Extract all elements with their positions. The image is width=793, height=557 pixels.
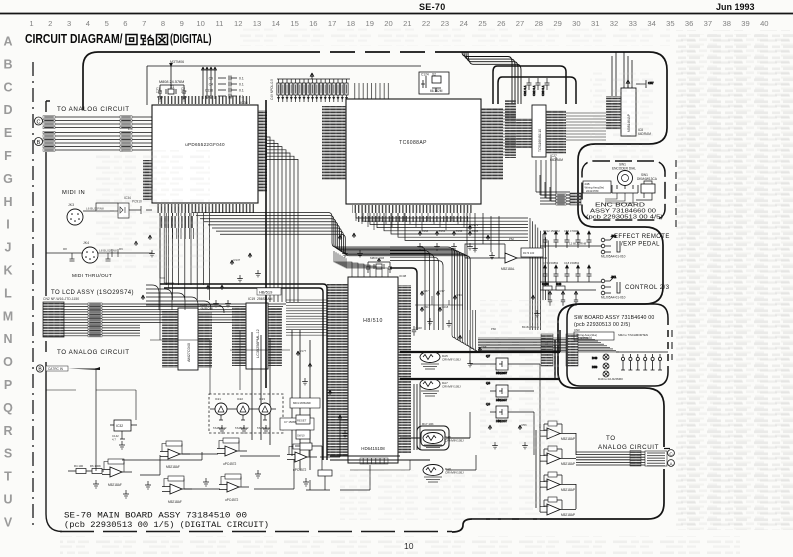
svg-text:4: 4 [86, 19, 90, 28]
svg-text:TO LCD ASSY (1SO29S74): TO LCD ASSY (1SO29S74) [51, 290, 134, 296]
bus label boxes into ENC [556, 194, 566, 205]
IC8 pin labels [606, 96, 621, 130]
resistor bank C49 group [277, 79, 350, 102]
regulator IC22 transistor can [232, 397, 254, 430]
svg-text:14: 14 [272, 19, 280, 28]
SW board box [567, 304, 668, 386]
jack JK2 effect remote [601, 234, 620, 254]
crystal X1 circuit symbols [157, 78, 187, 101]
svg-text:C153: C153 [472, 229, 479, 233]
svg-text:CRNV8Y105J: CRNV8Y105J [442, 385, 461, 389]
node A circled bottom [668, 460, 675, 467]
svg-text:37: 37 [704, 19, 712, 28]
wire opamp feed vertical [536, 424, 576, 512]
label MIDI THRU/OUT [72, 273, 112, 279]
svg-text:R: R [3, 424, 12, 438]
svg-text:A: A [3, 35, 12, 49]
label X2 crystal [421, 73, 443, 94]
wire bus LCD 13 lines [64, 303, 140, 337]
svg-text:SW BOARD ASSY 731B4640 00: SW BOARD ASSY 731B4640 00 [574, 315, 654, 321]
IC TC6088AP body [346, 99, 481, 204]
wire thick vertical at 327 [160, 284, 327, 460]
wire hb bus label [257, 288, 281, 295]
IC8 label 64DRAM [638, 128, 651, 136]
IC8 top decoupling [626, 80, 654, 88]
svg-text:D50: D50 [592, 365, 598, 369]
svg-text:SM2 to 7/SCHMORTEN: SM2 to 7/SCHMORTEN [618, 333, 648, 337]
svg-text:R48: R48 [556, 282, 562, 286]
bottom interconnect wires [96, 368, 348, 489]
svg-text:C: C [37, 119, 41, 125]
svg-text:0.1: 0.1 [239, 77, 244, 81]
svg-text:22: 22 [422, 19, 430, 28]
opamp IC M5218AP #2 [540, 446, 576, 466]
svg-text:R212 150862: R212 150862 [543, 229, 560, 233]
midi interface components [46, 203, 152, 261]
wires connecting Q group to DA arrays [446, 330, 540, 470]
opamp M5218AF #2 bottom chain [160, 441, 190, 469]
IC U1 bottom pin labels [156, 204, 254, 213]
connector CN2 label [43, 297, 79, 301]
svg-text:R173 100: R173 100 [523, 251, 535, 255]
svg-text:TC6088AP: TC6088AP [399, 140, 427, 146]
opamp IC M5218AP #3 [540, 472, 576, 492]
svg-text:3C08: 3C08 [399, 274, 407, 278]
svg-text:C: C [3, 80, 12, 94]
svg-text:IC23: IC23 [259, 397, 265, 401]
extra wire web bottom middle [46, 300, 410, 470]
svg-text:28: 28 [535, 19, 543, 28]
svg-text:24: 24 [459, 19, 467, 28]
svg-text:19: 19 [365, 19, 373, 28]
svg-text:M5218AP: M5218AP [561, 488, 575, 492]
svg-text:P62: P62 [509, 237, 514, 241]
svg-text:66.162M: 66.162M [430, 89, 443, 93]
svg-text:M808 24.576M: M808 24.576M [159, 80, 184, 84]
crystal X1 circuit labels [156, 80, 187, 94]
regulator IC23 transistor can [254, 397, 276, 430]
wire thick L pair top right [493, 66, 576, 104]
SW bus bend from north [452, 310, 479, 352]
svg-text:TA48M012: TA48M012 [213, 426, 227, 430]
svg-text:MIDI THRU/OUT: MIDI THRU/OUT [72, 273, 112, 279]
main board outline top and right weaving border [83, 52, 667, 532]
encoder SW1 dial [605, 163, 638, 204]
board outline left inner edge [46, 101, 62, 532]
svg-text:18: 18 [347, 19, 355, 28]
label CONTROL 2/3 [625, 285, 670, 291]
page title CIRCUIT DIAGRAM (DIGITAL) [25, 32, 212, 46]
svg-text:R8: R8 [63, 247, 67, 251]
svg-text:CA7RC IN: CA7RC IN [48, 367, 64, 371]
svg-text:C138: C138 [205, 89, 213, 93]
svg-text:23: 23 [441, 19, 449, 28]
label IC34 PC910 optocoupler [63, 196, 142, 253]
svg-text:CRNV8V105J: CRNV8V105J [445, 439, 464, 443]
opamp IC M5218AP #1 [540, 421, 576, 441]
svg-text:C18 150862: C18 150862 [564, 261, 580, 265]
svg-text:V: V [4, 515, 13, 529]
svg-text:R177: R177 [300, 349, 307, 353]
svg-text:21: 21 [403, 19, 411, 28]
svg-text:16: 16 [309, 19, 317, 28]
transistor Q7 RN1307 [486, 354, 514, 375]
svg-text:27: 27 [516, 19, 524, 28]
svg-text:M5218AP: M5218AP [561, 513, 575, 517]
IC H8/510 right pin labels [398, 285, 411, 453]
wire thick vertical at 266 [265, 100, 267, 388]
svg-text:M5218AL: M5218AL [501, 267, 515, 271]
svg-text:36: 36 [685, 19, 693, 28]
svg-text:CRNV8Y105J: CRNV8Y105J [442, 358, 461, 362]
wire bundle top entering right area [462, 52, 521, 104]
label stacks below U1 [159, 216, 194, 228]
svg-text:J: J [5, 241, 12, 255]
svg-text:C152: C152 [456, 229, 463, 233]
wire lcd bus extension [140, 304, 286, 336]
IC27 TC511664BJ DRAM body [532, 105, 546, 157]
IC TC6088AP right pin label columns [481, 108, 503, 180]
svg-text:uPD65522GF040: uPD65522GF040 [185, 142, 225, 147]
part C148 [412, 326, 422, 336]
wire loop around DA6 [400, 422, 470, 450]
svg-text:29: 29 [553, 19, 561, 28]
label TO ANALOG CIRCUIT bottom right [598, 435, 659, 451]
connector CN2 LCD pin block [43, 302, 64, 337]
resistor array DA8 [423, 465, 464, 483]
IC H8/510 bottom pin boxes [360, 458, 388, 464]
svg-text:9: 9 [180, 19, 184, 28]
board outline left dash-dot edge [32, 62, 34, 530]
svg-text:D49: D49 [592, 356, 598, 360]
ENC board box [582, 161, 665, 220]
scattered power flags top area [141, 223, 534, 430]
svg-text:uPC4572: uPC4572 [223, 462, 237, 466]
svg-text:25: 25 [478, 19, 486, 28]
label MLJ05A4 control [601, 296, 626, 300]
IC26 AM27C040 ROM body [178, 303, 213, 370]
opamp M5218AF #1 bottom chain [102, 459, 132, 487]
svg-text:12: 12 [234, 19, 242, 28]
header model label SE-70 [419, 2, 446, 12]
transistor Q9 RN1307 [486, 402, 514, 423]
resistor array DA7 [420, 379, 461, 397]
board outline top dashed middle [295, 51, 440, 53]
svg-text:IC32: IC32 [116, 424, 123, 428]
ENC board titles [586, 203, 663, 221]
svg-text:0.1: 0.1 [239, 89, 244, 93]
svg-text:30: 30 [572, 19, 580, 28]
svg-text:38: 38 [722, 19, 730, 28]
svg-text:7: 7 [142, 19, 146, 28]
svg-text:B: B [37, 140, 41, 146]
label MIDI IN [62, 190, 85, 196]
svg-text:C218: C218 [442, 305, 449, 309]
IC TC6088AP top pin stubs [354, 83, 392, 99]
IC U1 top pin labels [158, 96, 250, 104]
node C circled connector [35, 117, 43, 125]
svg-text:32: 32 [610, 19, 618, 28]
label B11B-PH-K-S [491, 325, 539, 331]
connector JK4 MIDI DIN [82, 241, 98, 263]
svg-text:LC35256PML-12: LC35256PML-12 [256, 329, 260, 358]
label M2TM06 top [170, 60, 184, 64]
page number 10 [404, 541, 414, 551]
svg-text:DKM4W13CA: DKM4W13CA [637, 177, 658, 181]
svg-text:R4 100: R4 100 [74, 464, 83, 468]
power IC32 box [110, 420, 137, 442]
svg-text:M5218AF: M5218AF [168, 500, 182, 504]
header date Jun 1993 [716, 2, 755, 12]
svg-text:U: U [3, 493, 12, 507]
IC U1 left lower pin labels [143, 160, 152, 200]
opamp IC M5218AP #4 [540, 497, 576, 517]
wire bus analog out [576, 449, 670, 467]
ground symbols bottom chain [93, 425, 309, 498]
IC26 pin labels both sides [162, 310, 212, 368]
svg-text:17: 17 [328, 19, 336, 28]
U1 bottom drop wires [160, 213, 194, 288]
svg-text:C49 NPOL-0.5: C49 NPOL-0.5 [270, 79, 274, 100]
svg-text:CN3: CN3 [574, 328, 580, 332]
svg-text:10: 10 [196, 19, 204, 28]
filter columns right mid [548, 291, 578, 306]
svg-text:M5218AP: M5218AP [561, 437, 575, 441]
svg-text:ENCODER DIAL: ENCODER DIAL [612, 167, 636, 171]
svg-text:(pcb 22930513 00 1/5) (DIGITAL: (pcb 22930513 00 1/5) (DIGITAL CIRCUIT) [64, 520, 269, 530]
node C circled bottom [668, 450, 675, 457]
dashed separator near ENC [672, 160, 676, 360]
wire top rail into U1 [147, 63, 421, 105]
svg-text:2: 2 [48, 19, 52, 28]
fan into CPU top pins [334, 251, 388, 277]
svg-text:TC511664BJ-10: TC511664BJ-10 [538, 129, 542, 152]
bus fan from U1 bottom heading east then south to SW bus [192, 213, 470, 311]
label TO ANALOG CIRCUIT lower [57, 349, 130, 356]
label TO LCD ASSY [51, 290, 134, 296]
svg-text:Jun 1993: Jun 1993 [716, 2, 755, 12]
svg-text:M3TM06: M3TM06 [170, 60, 184, 64]
wire nest TC bottom to south-east [356, 213, 548, 330]
svg-text:5: 5 [105, 19, 109, 28]
svg-text:CONTROL 2/3: CONTROL 2/3 [625, 285, 670, 291]
svg-text:R87: R87 [424, 289, 430, 293]
nested corner bundle south of TC [390, 247, 443, 330]
svg-text:AM27C040: AM27C040 [187, 343, 191, 362]
verticals down to effect area [467, 213, 499, 258]
svg-text:uPC4572: uPC4572 [293, 468, 307, 472]
svg-text:L3: L3 [128, 126, 133, 131]
svg-text:4.7: 4.7 [112, 438, 116, 442]
node B circled connector [35, 138, 43, 146]
svg-text:X2: X2 [432, 73, 436, 77]
row grid letters A-V [3, 35, 13, 530]
switch row [616, 352, 668, 370]
svg-text:D: D [3, 103, 12, 117]
svg-text:L2 BL02RN8: L2 BL02RN8 [569, 242, 587, 246]
IC27 pin labels [516, 110, 566, 154]
svg-text:I: I [6, 218, 9, 232]
svg-text:P: P [4, 378, 12, 392]
wires into ENC [540, 175, 570, 204]
svg-text:C151: C151 [439, 229, 446, 233]
svg-text:JK4: JK4 [83, 241, 89, 245]
svg-text:JK2: JK2 [611, 234, 617, 238]
svg-text:HB/519: HB/519 [259, 290, 273, 295]
svg-text:15: 15 [290, 19, 298, 28]
svg-text:JK3: JK3 [68, 203, 74, 207]
svg-text:MD1 M05AMF: MD1 M05AMF [293, 401, 311, 405]
SW wiring assy box [574, 328, 648, 340]
label TO ANALOG CIRCUIT top [57, 106, 130, 113]
svg-text:33: 33 [629, 19, 637, 28]
svg-text:TA48M012: TA48M012 [257, 426, 271, 430]
svg-text:P31: P31 [544, 453, 549, 457]
svg-text:20: 20 [384, 19, 392, 28]
dashed box regulator section [209, 394, 283, 433]
svg-text:R17: R17 [440, 289, 446, 293]
svg-text:MIDI IN: MIDI IN [62, 190, 85, 196]
svg-text:D49 to 02-9L5M60: D49 to 02-9L5M60 [598, 377, 623, 381]
control series resistors [542, 282, 565, 290]
node B lower circled connector with arrow [36, 365, 100, 373]
svg-text:8: 8 [161, 19, 165, 28]
svg-text:C9: C9 [209, 77, 213, 81]
svg-text:R17 10K: R17 10K [422, 422, 434, 426]
svg-text:R6 100K: R6 100K [90, 464, 101, 468]
crystal X2 circuit near TC [419, 72, 449, 94]
transistor Q8 RN1307 [486, 381, 514, 402]
wire nest between U1 and TC [266, 137, 298, 302]
IC U1 uPD65522GF040 body [152, 105, 258, 203]
thick wires to resistor arrays [400, 330, 560, 379]
svg-text:C32 0.1: C32 0.1 [532, 85, 536, 96]
svg-text:E: E [4, 126, 12, 140]
opamp uPC4572 #4 bottom chain [217, 438, 247, 466]
svg-text:SW10: SW10 [297, 434, 305, 438]
effect remote filters [540, 231, 602, 248]
jack JK1 control [601, 275, 620, 295]
ghost overlay offset [681, 34, 793, 530]
svg-text:/EXP PEDAL: /EXP PEDAL [621, 242, 660, 248]
thick wire mid horizontal lower [330, 456, 430, 460]
IC U1 right pin stubs [258, 110, 267, 192]
svg-text:T: T [4, 470, 12, 484]
svg-text:TA48M012: TA48M012 [235, 426, 249, 430]
wire verticals from U1 bottom [160, 213, 210, 300]
svg-text:22413780: 22413780 [586, 189, 599, 193]
resistor array DA6 [423, 433, 464, 451]
label IC36 [240, 101, 248, 105]
svg-text:ANALOG CIRCUIT: ANALOG CIRCUIT [598, 444, 659, 451]
svg-text:11: 11 [215, 19, 223, 28]
svg-text:CIRCUIT DIAGRAM/: CIRCUIT DIAGRAM/ [25, 32, 123, 46]
TC right to DRAM connection stubs [503, 110, 606, 155]
wires top border to IC8 [612, 52, 632, 96]
label MLJ05A4 effect [601, 255, 626, 259]
svg-text:IC21: IC21 [215, 397, 221, 401]
svg-text:IC22: IC22 [237, 397, 243, 401]
svg-text:EFFECT REMOTE: EFFECT REMOTE [614, 234, 670, 240]
IC H8/510 HD6415108 CPU body [348, 277, 398, 463]
svg-text:K: K [3, 264, 12, 278]
svg-text:uPC4572: uPC4572 [225, 498, 239, 502]
resistor array DA5 [420, 352, 461, 370]
svg-text:C74 150862: C74 150862 [543, 261, 559, 265]
opamp M5218AF #3 bottom chain [162, 476, 192, 504]
svg-text:P33: P33 [544, 504, 549, 508]
switch SW2 DKM4W13CA [636, 173, 658, 200]
opamp uPC4572 #6 bottom chain [287, 444, 317, 472]
connector JK3 MIDI DIN [67, 203, 83, 225]
svg-text:C31 0.1: C31 0.1 [523, 85, 527, 96]
svg-text:C124: C124 [421, 73, 429, 77]
ENC wiring assy box [583, 181, 611, 193]
resistor R4 R6 input [68, 464, 104, 474]
svg-text:S: S [4, 447, 12, 461]
svg-text:6: 6 [123, 19, 127, 28]
svg-text:F: F [4, 149, 12, 163]
svg-text:0.1: 0.1 [239, 83, 244, 87]
svg-text:34: 34 [647, 19, 655, 28]
svg-text:R179: R179 [472, 223, 479, 227]
IC TC6088AP left pin label columns [322, 106, 346, 180]
svg-text:40: 40 [760, 19, 768, 28]
ENC connector stack [570, 193, 581, 205]
wire verticals mid to bottom [252, 330, 420, 470]
capacitor array block [202, 67, 238, 99]
SW bus connector blocks [541, 334, 578, 366]
bottom middle extra parts [295, 443, 370, 490]
svg-text:M5218AF: M5218AF [166, 465, 180, 469]
svg-text:3: 3 [67, 19, 71, 28]
svg-text:C150: C150 [422, 229, 429, 233]
svg-text:H: H [3, 195, 12, 209]
svg-text:C266: C266 [542, 282, 549, 286]
svg-text:P32: P32 [544, 479, 549, 483]
pin stack extra near DRAM [505, 100, 516, 158]
IC19 pin labels both sides [232, 306, 282, 366]
svg-text:C33 0.1: C33 0.1 [541, 85, 545, 96]
IC19 LC35256 SRAM body [246, 297, 273, 369]
svg-text:SE-70: SE-70 [419, 2, 446, 12]
crystal M809 above CPU [366, 256, 407, 278]
header rule [0, 13, 793, 15]
svg-text:M: M [3, 309, 13, 323]
scattered grounds [149, 245, 540, 449]
svg-text:31: 31 [591, 19, 599, 28]
svg-text:MLJ05A4-01-010: MLJ05A4-01-010 [601, 255, 626, 259]
board outline bottom dashed edge [60, 531, 452, 533]
svg-text:13: 13 [253, 19, 261, 28]
column grid numbers 1-40 [29, 19, 768, 28]
svg-text:G: G [3, 172, 13, 186]
wire bus analog lower group [43, 131, 152, 151]
svg-text:(DIGITAL): (DIGITAL) [170, 32, 212, 46]
SW bus wires [478, 338, 619, 352]
svg-text:(pcb 22930513 00 4/5): (pcb 22930513 00 4/5) [586, 215, 663, 221]
svg-text:39: 39 [741, 19, 749, 28]
switch cluster boxes right of MD1 [296, 415, 310, 439]
rounded bus bends into RAM area [146, 285, 224, 313]
svg-text:C64 4700P: C64 4700P [564, 229, 578, 233]
svg-text:M5218AF: M5218AF [108, 483, 122, 487]
wire bus analog upper group [43, 116, 152, 129]
opamp uPC4572 #5 bottom chain [219, 474, 249, 502]
opamp M5218AL mid [465, 237, 547, 271]
svg-text:Q: Q [3, 401, 13, 415]
svg-text:1: 1 [29, 19, 33, 28]
